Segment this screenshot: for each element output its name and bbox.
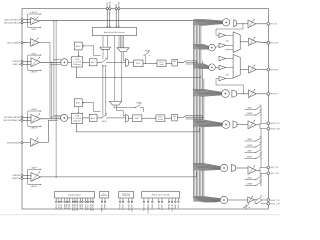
mixer MONO sum xyxy=(222,121,230,129)
pin MONO_LOP xyxy=(267,122,270,125)
svg-text:LINE2R: LINE2R xyxy=(247,145,253,147)
node tap1 xyxy=(53,59,54,60)
svg-text:BIAS: BIAS xyxy=(103,204,106,209)
wire bypass LINE2R xyxy=(245,114,256,116)
wire WCLK down to interface xyxy=(109,10,111,28)
pin SDA/MOSI xyxy=(147,201,149,203)
svg-text:DRVDD: DRVDD xyxy=(75,204,77,211)
switch SW-D3 (ADC R) xyxy=(101,114,108,124)
switch bypass LINE2L to MONO xyxy=(255,105,262,110)
wire MIC1LP/LINE1LP to amp xyxy=(23,19,31,21)
wire MIC2R/LINE2R to amp xyxy=(23,141,31,143)
wire pin stub AVDD xyxy=(82,198,84,201)
pin SCL/SS xyxy=(143,201,145,203)
pin HPLOUT xyxy=(267,22,270,25)
fan bus to HPLCOM mixer xyxy=(193,44,208,49)
svg-text:ADC: ADC xyxy=(91,117,96,120)
pin MIC1LM/LINE1LM xyxy=(21,22,23,24)
pin DVSS xyxy=(58,201,60,203)
wire to HPLOUT amp xyxy=(237,23,248,25)
pin MCLK xyxy=(119,201,121,203)
mixer ADC-R input xyxy=(61,114,68,121)
svg-text:LINE2LM: LINE2LM xyxy=(12,64,21,66)
switch RIGHT_LOM xyxy=(256,199,263,204)
block Volume Control L xyxy=(157,60,166,67)
wire pin stub GPIO1 xyxy=(161,198,163,201)
funnel A collector to serial interface xyxy=(100,47,111,49)
switch bypass LINE2L to MONO low xyxy=(255,137,262,142)
block U1 Audio Serial Bus Interface xyxy=(92,28,136,36)
wire bypass connector A6 xyxy=(27,169,29,178)
wire pin stub RESET xyxy=(168,198,170,201)
wire bypass verticals MONO bottom xyxy=(260,129,262,147)
svg-text:GPIO1: GPIO1 xyxy=(160,204,162,210)
pin DRVDD xyxy=(90,201,92,203)
pin DVDD xyxy=(61,201,63,203)
wire A2 output down xyxy=(39,43,50,118)
wire MIC2L/LINE2L to amp xyxy=(23,42,31,44)
block ADC L xyxy=(89,59,97,66)
pin HPLCOM xyxy=(267,41,270,44)
switch RIGHT_LO enable xyxy=(244,203,251,208)
svg-text:0 / +59.5dB: 0 / +59.5dB xyxy=(73,118,81,120)
pin HPRCOM xyxy=(267,68,270,71)
block Volume Control R xyxy=(156,115,165,122)
wire LINE2LM to amp xyxy=(23,63,31,65)
wire pin stub SDA/MOSI xyxy=(147,198,149,201)
wire pin stub DRVDD xyxy=(90,198,92,201)
bypass stub to LINEOUT xyxy=(28,126,42,127)
switch bypass LINE2L to LEFT_LO low xyxy=(255,175,262,180)
wire pin stub DVSS xyxy=(58,198,60,201)
wire funnel A to interface block xyxy=(102,36,104,48)
wire bypass connector A6 xyxy=(27,175,29,184)
node A6 junction xyxy=(56,176,57,177)
svg-text:MICBIAS: MICBIAS xyxy=(100,204,103,213)
fan bus to MONO mixer xyxy=(193,120,222,127)
wire pin stub SELECT xyxy=(171,198,173,201)
fan bus to HPROUT mixer xyxy=(193,89,221,96)
wire pin stub DRVSS xyxy=(92,198,94,201)
pin MISO xyxy=(152,201,154,203)
node HPLOUT branch xyxy=(243,23,244,24)
input amp A3 xyxy=(31,57,41,67)
fan bus to HPRCOM mixer xyxy=(193,64,208,69)
wire mixer1 input taps xyxy=(54,59,61,61)
buffer HPLCOM input A xyxy=(219,33,226,38)
wire mixer1 to PGA-L xyxy=(68,61,72,63)
input amp A6 xyxy=(31,172,41,182)
block PGA R xyxy=(71,113,82,123)
svg-text:DRVSS: DRVSS xyxy=(91,204,93,211)
mixer HPLOUT sum xyxy=(222,19,229,26)
wire DIN down to interface xyxy=(115,10,117,28)
svg-text:MISO: MISO xyxy=(151,204,153,209)
svg-text:RESET: RESET xyxy=(167,204,169,211)
svg-text:HPRCOM: HPRCOM xyxy=(270,69,278,71)
svg-text:MIC1LP/LINE1LP: MIC1LP/LINE1LP xyxy=(5,19,21,21)
wire RIGHT_LO amp branches xyxy=(254,199,256,201)
wire bypass verticals LEFT bottom xyxy=(260,173,262,185)
pin AVDD xyxy=(64,201,66,203)
svg-text:DVDD: DVDD xyxy=(60,204,62,210)
wire MIC1RP/LINE1RP to amp xyxy=(23,116,31,118)
pin DRVDD xyxy=(76,201,78,203)
svg-text:MONO_LOM: MONO_LOM xyxy=(270,129,280,131)
fan bus to HPLOUT mixer xyxy=(193,19,222,25)
pin BIAS xyxy=(104,201,106,203)
wire buffer A to mux xyxy=(226,34,234,36)
wire pin stub PLLDIV xyxy=(128,198,130,201)
volume HPLOUT xyxy=(234,20,237,27)
pin PLLDIV xyxy=(128,201,130,203)
svg-text:SW-D1: SW-D1 xyxy=(102,65,107,67)
wire pin stub TEST xyxy=(178,198,180,201)
funnel B distributor xyxy=(117,48,129,52)
pin RESET xyxy=(168,201,170,203)
wire SW-D2 vertical xyxy=(144,55,146,63)
wire to MONO amp xyxy=(237,124,248,126)
pin GPIO1 xyxy=(161,201,163,203)
pin AVSS xyxy=(66,201,68,203)
svg-text:SW-D4: SW-D4 xyxy=(136,102,141,104)
wire bypass connector A3 xyxy=(27,55,29,64)
block ADC R xyxy=(89,114,97,121)
block Bias References xyxy=(100,192,109,198)
wire HPROUT branch to buffer C xyxy=(216,79,244,94)
bottom faint separator xyxy=(0,214,280,216)
wire pin stub SCLK xyxy=(158,198,160,201)
pin CLKOUT xyxy=(131,201,133,203)
wire SW-D4 to mux2 region xyxy=(141,108,144,112)
svg-text:SW-D3: SW-D3 xyxy=(102,121,107,123)
pin WCLK xyxy=(109,8,111,10)
block Voltage Supplies xyxy=(55,192,95,198)
wire PGA-R to ADC-R xyxy=(83,117,90,119)
pin IFSEL xyxy=(175,201,177,203)
pin RIGHT_LOM xyxy=(267,202,270,205)
svg-text:TEST: TEST xyxy=(177,204,179,210)
mux DAC-R input select xyxy=(126,114,129,122)
pin SELECT xyxy=(171,201,173,203)
svg-text:DRVSS: DRVSS xyxy=(73,204,75,211)
wire bypass connector A4 xyxy=(27,117,29,126)
block DRC R xyxy=(132,115,142,122)
volume MONO xyxy=(233,121,237,128)
wire bypass LINE2L L6 xyxy=(245,152,256,154)
svg-text:IOVDD: IOVDD xyxy=(84,204,86,211)
pin DRVDD xyxy=(72,201,74,203)
wire mux3 to HPRCOM amp xyxy=(240,69,248,71)
switch bypass LINE2R to MONO low xyxy=(255,143,262,148)
pin MIC1RM/LINE1RM xyxy=(21,119,23,121)
pin MIC1RP/LINE1RP xyxy=(21,116,23,118)
svg-text:MIC1LM/LINE1LM: MIC1LM/LINE1LM xyxy=(4,22,21,24)
svg-text:AVDD: AVDD xyxy=(81,204,84,210)
svg-text:GPIO2: GPIO2 xyxy=(121,204,123,210)
wire DRC-L to volume L xyxy=(143,62,157,64)
wire bypass connector A1 xyxy=(27,14,29,23)
wire pin stub IOVSS xyxy=(87,198,89,201)
pin BCLK xyxy=(106,8,108,10)
svg-text:WCLK: WCLK xyxy=(110,1,112,8)
block PGA L xyxy=(71,57,82,67)
pin SCLK xyxy=(158,201,160,203)
pin LINE2RM xyxy=(21,177,23,179)
pin MICBIAS xyxy=(101,201,103,203)
wire mixer2 input taps xyxy=(54,114,61,116)
svg-text:CLKOUT: CLKOUT xyxy=(130,204,132,213)
pin RIGHT_LOP xyxy=(267,199,270,202)
pin LINE2LM xyxy=(21,63,23,65)
wire buffer C to mux3 xyxy=(226,78,234,80)
svg-text:SW-D2: SW-D2 xyxy=(145,50,150,52)
wire mixer3 to buffer B xyxy=(215,66,219,68)
node SW-D2 xyxy=(145,63,146,64)
bypass stub to LINEOUT xyxy=(28,184,42,185)
wire PGA-L to ADC-L xyxy=(83,61,90,63)
svg-text:LINE2RM: LINE2RM xyxy=(12,178,21,180)
switch SW-D4 (DAC R select) xyxy=(135,103,142,108)
wire ADC-L feedback into AGC xyxy=(82,45,100,55)
pin DVDD xyxy=(55,201,57,203)
svg-text:0 / +59.5dB: 0 / +59.5dB xyxy=(73,62,81,64)
wire bypass LINE2L low xyxy=(245,140,256,142)
wire ADC verticals down to right chain xyxy=(102,65,104,116)
wire bypass LINE2R L6 xyxy=(245,158,256,160)
svg-text:LINE2L: LINE2L xyxy=(247,178,252,180)
wire volume L to DAC L xyxy=(166,62,172,64)
svg-text:DVDD: DVDD xyxy=(54,204,56,210)
mixer ADC-L input xyxy=(61,59,68,66)
pin GPIO2 xyxy=(122,201,124,203)
wire pin stub BIAS xyxy=(104,198,106,201)
pin LEFT_LOP xyxy=(267,166,270,169)
wire bypass verticals MONO top xyxy=(260,106,262,123)
svg-text:AGC: AGC xyxy=(76,45,81,48)
pin MIC1LP/LINE1LP xyxy=(21,19,23,21)
pin IOVDD xyxy=(85,201,87,203)
pin DRVSS xyxy=(74,201,76,203)
block AGC R xyxy=(74,99,82,107)
wire bypass verticals LEFT top xyxy=(260,150,262,168)
wire AGC-R to PGA-R xyxy=(78,107,80,113)
svg-text:LINE1L: LINE1L xyxy=(31,29,36,31)
pin DRVSS xyxy=(92,201,94,203)
switch bypass LINE2L to LEFT_LO xyxy=(255,148,262,153)
mixer LEFT_LO sum xyxy=(220,164,227,171)
svg-text:DVSS: DVSS xyxy=(57,204,59,210)
svg-text:Bias: Bias xyxy=(103,193,106,195)
op-amp HPLOUT driver xyxy=(248,19,256,28)
wire mixer2 to PGA-R xyxy=(68,117,72,119)
svg-text:LEFT_LOM: LEFT_LOM xyxy=(270,173,279,175)
bypass stub to LINEOUT xyxy=(28,70,42,71)
wire bypass connector A4 xyxy=(27,111,29,120)
wire LINE2RM to amp xyxy=(23,177,31,179)
wire pin stub AVSS xyxy=(66,198,68,201)
pin LINE2RP xyxy=(21,174,23,176)
block DRC L xyxy=(134,60,144,67)
block SPI I2C Serial Controller xyxy=(142,192,180,198)
svg-text:LINE2L: LINE2L xyxy=(31,53,36,55)
op-amp LEFT_LOUT driver xyxy=(248,165,256,174)
svg-text:DOUT: DOUT xyxy=(119,1,121,8)
switch bypass LINE2R to MONO xyxy=(255,111,262,116)
funnel C distributor right xyxy=(110,101,122,105)
wire pin stub GPIO2 xyxy=(122,198,124,201)
bypass stub to LINEOUT xyxy=(28,13,42,14)
svg-text:HPROUT: HPROUT xyxy=(270,94,277,96)
svg-text:SCL/SS: SCL/SS xyxy=(142,204,144,211)
fan bus to RIGHT_LO mixer xyxy=(193,196,220,201)
svg-text:MIC2L/LINE2L: MIC2L/LINE2L xyxy=(7,42,21,44)
svg-text:MIC1RP/LINE1RP: MIC1RP/LINE1RP xyxy=(4,117,21,119)
wire buffer B to mux3 xyxy=(226,67,234,69)
wire pin stub AVDD xyxy=(64,198,66,201)
svg-text:DRC: DRC xyxy=(135,118,140,120)
wire funnel C down xyxy=(114,105,136,108)
wire pin stub DRVSS xyxy=(74,198,76,201)
wire ADC-L to switch xyxy=(97,61,102,63)
svg-text:ADC: ADC xyxy=(91,61,96,64)
block AGC L xyxy=(74,42,82,50)
wire DRC-R to volume R xyxy=(142,117,156,119)
svg-text:LINE2L: LINE2L xyxy=(247,139,252,141)
wire A4 output to mixer2 xyxy=(41,118,61,120)
svg-text:References: References xyxy=(100,195,108,197)
wire RIGHT_LO amp ground switch xyxy=(245,204,247,209)
block DAC R xyxy=(172,114,178,121)
wire MONO amp to pins xyxy=(256,124,260,126)
svg-text:LINE2L: LINE2L xyxy=(247,151,252,153)
svg-text:SPI/I2C Serial Controller: SPI/I2C Serial Controller xyxy=(151,193,170,196)
switch bypass LINE2R to LEFT_LO xyxy=(255,154,262,159)
outer border of IC xyxy=(22,9,268,209)
svg-text:LINE2L: LINE2L xyxy=(247,107,252,109)
svg-text:LINEOUT: LINEOUT xyxy=(31,12,38,14)
svg-text:HPLCOM: HPLCOM xyxy=(270,43,278,45)
ribbon interface to funnel B xyxy=(118,36,120,48)
svg-text:LINEOUT: LINEOUT xyxy=(31,72,38,74)
wire to RIGHT_LO amp xyxy=(228,199,248,201)
wire aux lines into bus R xyxy=(186,116,204,118)
wire pin stub AVSS xyxy=(79,198,81,201)
op-amp MONO_LOUT driver xyxy=(248,120,256,129)
svg-text:LINE2R: LINE2R xyxy=(247,113,253,115)
wire pin stub DRVDD xyxy=(76,198,78,201)
buffer HPLCOM input B xyxy=(219,43,226,48)
wire interface lines down to funnel C xyxy=(114,36,116,102)
wire bypass LINE2L xyxy=(245,108,256,110)
fan bus to LEFT_LO mixer xyxy=(193,163,220,170)
wire DAC-L to bus xyxy=(178,61,197,63)
pin TEST xyxy=(178,201,180,203)
bypass stub to LINE2L xyxy=(28,55,42,56)
node A1 long junction xyxy=(56,20,57,21)
wire switch SW-D3 to mux2 xyxy=(107,117,126,119)
wire bypass LINE2R low xyxy=(245,146,256,148)
wire AGC-L to PGA xyxy=(78,50,80,56)
wire ADC-L up to funnel A xyxy=(102,49,104,59)
wire mux to HPLCOM amp xyxy=(240,41,248,43)
wire aux lines into bus L xyxy=(186,61,198,63)
pin MIC2R/LINE2R xyxy=(21,142,23,144)
mixer RIGHT_LO sum xyxy=(220,196,227,203)
wire mux1 to DRC-L xyxy=(128,62,133,64)
svg-text:RIGHT_LOM: RIGHT_LOM xyxy=(270,204,280,206)
svg-text:R: R xyxy=(174,119,175,121)
svg-text:MONO_LOP: MONO_LOP xyxy=(270,123,279,125)
wire A6 output long line to bus xyxy=(41,172,197,177)
wire pin stub DVDD xyxy=(60,198,62,201)
wire buffer A to mux3 xyxy=(226,58,234,60)
pin IOVSS xyxy=(87,201,89,203)
input amp A5 xyxy=(31,138,39,147)
pin HPROUT xyxy=(267,92,270,95)
wire HPLOUT branch down to HPLCOM xyxy=(216,24,243,36)
wire bypass LINE2L L6 low xyxy=(245,179,256,181)
svg-text:MIC1RM/LINE1RM: MIC1RM/LINE1RM xyxy=(3,120,20,122)
op-amp HPROUT driver xyxy=(249,89,257,98)
svg-text:MIC2R/LINE2R: MIC2R/LINE2R xyxy=(7,142,21,144)
svg-text:LINE2R: LINE2R xyxy=(31,168,37,170)
wire volume R to DAC R xyxy=(165,117,172,119)
wire switch SW-D1 to mux1 xyxy=(107,61,126,63)
wire DAC-R to bus xyxy=(177,116,202,119)
op-amp HPLCOM driver xyxy=(249,37,257,45)
svg-text:PLLDIV: PLLDIV xyxy=(127,204,129,211)
wire bypass connector A3 xyxy=(27,61,29,70)
mixer HPROUT sum xyxy=(222,90,230,98)
switch SW-D2 (digital loopback L) xyxy=(144,50,151,55)
wire vertical long A1 to A6 line xyxy=(55,21,57,177)
svg-text:DRVDD: DRVDD xyxy=(71,204,73,211)
svg-text:SELECT: SELECT xyxy=(170,204,172,212)
wire pin stub IOVDD xyxy=(85,198,87,201)
wire ADC-R to switch xyxy=(97,117,102,119)
wire BCLK down to interface xyxy=(106,10,108,28)
wire mixer to mux low input xyxy=(226,49,234,51)
svg-text:0dB: 0dB xyxy=(226,40,229,42)
wire bypass LINE2R L6 low xyxy=(245,185,256,187)
switch bypass LINE2R to LEFT_LO low xyxy=(255,181,262,186)
wire HPLCOM amp to pin xyxy=(256,41,267,44)
svg-text:RIGHT_LOP: RIGHT_LOP xyxy=(270,200,279,202)
switch SW-D1 (ADC L) xyxy=(101,58,108,68)
bypass stub to LINE2R xyxy=(28,169,42,170)
svg-text:Volume: Volume xyxy=(159,62,164,64)
wire branch to RIGHT_LOM xyxy=(255,200,256,204)
wire funnel C to mux2 top xyxy=(117,105,126,116)
wire A3 output to mixer1 xyxy=(41,61,61,63)
wire PGA-L bypass to bus xyxy=(76,67,201,78)
svg-text:LINE2R: LINE2R xyxy=(247,157,253,159)
wire pin stub CLKOUT xyxy=(131,198,133,201)
block DAC L xyxy=(172,59,178,66)
node A1 junction xyxy=(53,20,54,21)
wire vertical A1 feed down xyxy=(53,21,55,117)
wire ADC-R feedback into AGC xyxy=(82,102,100,112)
buffer HPRCOM input A xyxy=(219,56,226,61)
pin DOUT xyxy=(118,8,120,10)
buffer HPRCOM input B xyxy=(219,65,226,70)
svg-text:LINE2RP: LINE2RP xyxy=(12,175,21,177)
volume LEFT_LO xyxy=(232,165,236,172)
pin AVDD xyxy=(82,201,84,203)
mux HPLCOM select xyxy=(233,32,240,53)
wire mux2 to DRC-R xyxy=(128,117,132,119)
